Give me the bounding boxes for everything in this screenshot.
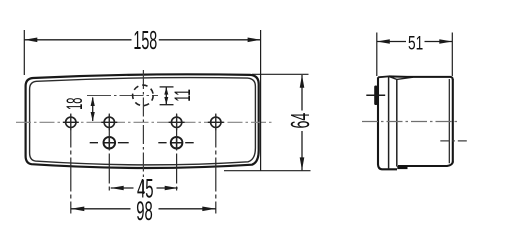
dimension 45 arrow right: [165, 186, 178, 191]
hole 1 vertical axis / 98-dim left extension: [70, 114, 72, 214]
svg-text:64: 64: [287, 112, 316, 128]
side view bottom junction thick segment: [397, 166, 407, 169]
dimension 11 top tick: [160, 86, 174, 88]
mounting hole 1: [63, 114, 79, 130]
dimension 51 extension right: [451, 33, 453, 77]
svg-text:98: 98: [136, 195, 153, 226]
dimension 158 / 64 extension line right: [260, 30, 262, 171]
lamp body outer outline (front view): [26, 74, 259, 168]
dimension 98 arrow right: [202, 207, 216, 212]
svg-text:51: 51: [408, 32, 423, 54]
dimension 11 arrow up: [164, 87, 168, 95]
lamp lens inner outline (front view): [30, 78, 256, 165]
dimension 51 arrow right: [439, 39, 452, 43]
hole 4 vertical axis / 98-dim right extension: [215, 114, 217, 214]
hole 3 / screw vertical axis / 45-dim right extension: [176, 114, 178, 194]
side view lower centerline (cable axis): [440, 140, 467, 142]
screw hole left (cross symbol): [90, 136, 129, 149]
hole axis line through dashed circle: [87, 95, 158, 97]
dimension 158 line: [24, 39, 260, 41]
mounting hole 2: [101, 114, 117, 130]
mounting hole 3: [169, 114, 185, 130]
svg-text:158: 158: [133, 26, 157, 55]
dimension 11 arrow down: [164, 97, 168, 105]
side view lens inner right line: [448, 79, 450, 163]
side view mounting clip: [374, 86, 377, 106]
side view horizontal centerline (mounting axis): [362, 121, 458, 123]
dimension 11 line with arrows: [165, 88, 167, 105]
svg-text:18: 18: [62, 98, 87, 110]
dimension 45 arrow left: [111, 186, 124, 191]
dimension 64 bottom extension: [224, 170, 311, 172]
dimension 98 arrow left: [71, 207, 85, 212]
side view lens right edge: [452, 79, 454, 163]
side view top edge: [389, 76, 453, 79]
horizontal centerline through mounting holes: [16, 121, 273, 123]
dimension 158 extension line left: [23, 30, 25, 75]
screw hole right (cross symbol): [158, 136, 193, 149]
dimension 64 arrow up: [300, 75, 305, 88]
side view clip tick line: [366, 94, 385, 96]
dashed circle (top hole d11): [133, 85, 154, 106]
dimension 18 line with arrows: [92, 98, 94, 122]
hole 2 / screw vertical axis / 45-dim left extension: [108, 114, 110, 194]
dimension 64 top extension: [252, 73, 309, 75]
dimension 51 arrow left: [377, 39, 390, 43]
side view base plate left edge: [378, 77, 397, 169]
dimension 64 arrow down: [300, 157, 305, 170]
vertical centerline of lamp: [142, 70, 144, 194]
dimension 158 arrow left: [24, 38, 37, 43]
side view housing chamfer: [389, 76, 413, 79]
svg-text:11: 11: [170, 89, 195, 102]
dimension 18 arrow down: [91, 112, 95, 121]
dimension 18 arrow up: [91, 97, 95, 106]
dimension 158 arrow right: [248, 38, 261, 43]
side view lens bottom edge: [398, 162, 453, 167]
dimension 11 bottom tick: [160, 104, 174, 106]
side view base top edge: [378, 75, 389, 78]
side view base plate right edge: [388, 76, 390, 169]
dimension 51 line: [377, 41, 453, 43]
mounting hole 4: [208, 114, 224, 130]
dimension 64 line: [301, 75, 303, 170]
dimension 51 extension left: [376, 33, 378, 77]
side view lens rear edge: [396, 79, 398, 166]
dimension 98 line: [71, 208, 216, 210]
dimension 45 line: [111, 187, 178, 189]
